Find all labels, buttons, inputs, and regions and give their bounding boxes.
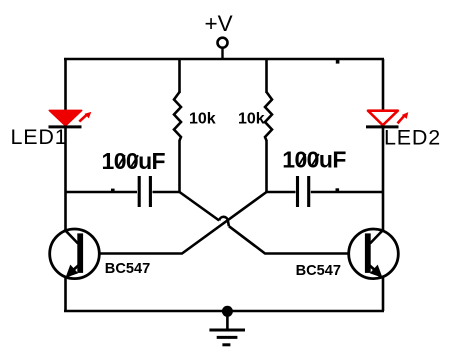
value label 100uF (right) — [282, 147, 346, 173]
LED LED2 (off, hollow) — [366, 111, 408, 127]
wire: bottom rail — [64, 310, 384, 313]
svg-text:+V: +V — [205, 11, 233, 36]
transistor Q2 (BC547, right) — [349, 229, 399, 279]
wire: cross-couple C1/R1 node to Q2 base (hops over at crossing) — [180, 192, 348, 254]
wire: cross-couple C2/R2 node to Q1 base — [101, 192, 267, 254]
wire: top rail — [64, 58, 384, 61]
resistor R2 (right 10k) — [265, 59, 272, 192]
LED LED1 (lit, solid) — [49, 110, 92, 127]
capacitor C2 (right 100uF) — [267, 176, 384, 207]
ground — [209, 311, 245, 345]
svg-text:LED1: LED1 — [11, 125, 68, 149]
svg-text:10k: 10k — [189, 111, 216, 128]
svg-text:BC547: BC547 — [296, 263, 341, 279]
wire: right rail middle (LED2 to Q2 collector) — [382, 127, 385, 230]
wire: left rail upper (top rail to LED1) — [64, 59, 67, 112]
stub artifact on top rail — [336, 59, 340, 64]
stub artifact on C1 wire — [111, 189, 115, 192]
svg-text:LED2: LED2 — [384, 125, 441, 149]
capacitor C1 (left 100uF) — [66, 176, 180, 207]
svg-text:BC547: BC547 — [105, 261, 150, 277]
wire: right rail lower (Q2 emitter to bottom rail) — [382, 278, 385, 311]
svg-text:100uF: 100uF — [282, 147, 346, 173]
wire: right rail upper (top rail to LED2) — [382, 59, 385, 112]
+V supply terminal — [218, 38, 228, 59]
junction dot at ground tap — [222, 306, 233, 317]
value label 100uF (left) — [102, 148, 166, 174]
resistor R1 (left 10k) — [174, 59, 181, 192]
wire: left rail lower (Q1 emitter to bottom rail) — [64, 278, 67, 311]
stub artifact on C2 wire — [336, 188, 340, 192]
transistor Q1 (BC547, left) — [50, 229, 100, 279]
wire: left rail middle (LED1 to Q1 collector) — [64, 127, 67, 230]
svg-text:10k: 10k — [238, 111, 265, 128]
svg-text:100uF: 100uF — [102, 148, 166, 174]
